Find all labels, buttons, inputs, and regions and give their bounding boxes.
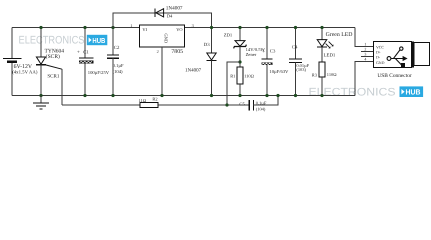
svg-text:R1: R1 (230, 74, 235, 79)
svg-text:C3: C3 (270, 49, 276, 55)
capacitor C2 0.1uF (107, 55, 119, 58)
wire C1 bottom to ground bus (84, 64, 86, 96)
svg-text:SCR1: SCR1 (47, 74, 59, 80)
wire USB pin 3 stub (361, 56, 374, 58)
junction gate line / node A branch (225, 103, 228, 106)
junction top bus / SCR (39, 26, 42, 29)
wire SCR anode drop (40, 28, 42, 58)
svg-text:GND: GND (163, 33, 168, 43)
svg-text:6V-12V: 6V-12V (14, 64, 33, 70)
capacitor C5 0.1uF (249, 100, 253, 110)
capacitor C3 10uF/63V electrolytic (261, 59, 272, 65)
svg-text:+: + (262, 50, 265, 55)
svg-text:110Ω: 110Ω (244, 74, 254, 79)
wire gate line with R2 (62, 104, 249, 106)
svg-text:HUB: HUB (92, 36, 105, 45)
junction ground bus / R1 (238, 94, 241, 97)
svg-text:0.1µF: 0.1µF (113, 63, 124, 68)
junction ground bus / 7805 GND (160, 94, 163, 97)
wire C3 top drop (266, 28, 268, 59)
wire C3 bottom to ground bus (266, 65, 268, 95)
svg-text:11Ω: 11Ω (139, 98, 147, 103)
svg-text:ZD1: ZD1 (224, 32, 233, 37)
svg-text:1N4007: 1N4007 (185, 67, 202, 73)
junction top bus / C1 (83, 26, 86, 29)
svg-text:1: 1 (130, 23, 132, 28)
wire R3 bottom to ground bus (321, 77, 323, 96)
resistor R1 110ohm (237, 67, 243, 84)
battery BT1 6V-12V (3, 58, 22, 61)
junction ground bus / C3 (265, 94, 268, 97)
node A junction zener/R1/gate branch (238, 60, 241, 63)
capacitor C4 0.01uF (289, 59, 302, 63)
svg-text:GND: GND (376, 61, 385, 65)
svg-text:Green LED: Green LED (326, 32, 353, 38)
wire R1 bottom to ground bus (239, 84, 241, 96)
svg-text:110Ω: 110Ω (327, 72, 337, 77)
junction top bus / LED1 (320, 26, 323, 29)
wire battery to ground bus (11, 62, 13, 96)
wire SCR gate riser to gate line (61, 69, 63, 105)
svg-text:Zener: Zener (246, 52, 257, 57)
svg-text:(SCR): (SCR) (46, 54, 60, 60)
svg-text:VO: VO (176, 27, 182, 32)
svg-text:LED1: LED1 (324, 53, 336, 59)
diode D3 1N4007 (207, 53, 217, 60)
wire 7805 GND pin to ground bus (161, 47, 163, 96)
regulator U1 7805 (140, 25, 185, 47)
wire C2 top drop (112, 28, 114, 55)
wire USB GND pin to ground bus (355, 62, 374, 96)
junction ground bus / C2 (111, 94, 114, 97)
junction ground bus / C5 branch (276, 94, 279, 97)
svg-text:HUB: HUB (406, 88, 421, 97)
resistor R3 110ohm (319, 62, 325, 77)
wire C4 top drop (295, 28, 297, 59)
wire USB pin 2 stub (361, 51, 374, 53)
diode D4 1N4007 (155, 9, 164, 17)
junction top bus / ZD1 (238, 26, 241, 29)
wire D3 top drop (211, 28, 213, 54)
svg-text:7805: 7805 (171, 49, 183, 55)
svg-text:C1: C1 (83, 50, 89, 56)
wire ZD1 to node A (239, 47, 241, 68)
junction top bus / C4 (294, 26, 297, 29)
svg-text:VCC: VCC (376, 45, 384, 49)
wire LED cathode to R3 (321, 47, 323, 62)
svg-text:C5: C5 (239, 102, 245, 107)
wire top bus to USB VCC pin (355, 28, 374, 47)
junction ground bus / D3 (210, 94, 213, 97)
svg-text:ELECTRONICS: ELECTRONICS (19, 35, 85, 47)
svg-text:(103): (103) (296, 67, 306, 72)
svg-text:1N4007: 1N4007 (166, 5, 183, 11)
resistor R2 11ohm (140, 102, 158, 107)
wire C4 bottom to ground bus (295, 62, 297, 95)
LED LED1 green (317, 40, 333, 49)
svg-text:D3: D3 (204, 42, 210, 48)
svg-text:R3: R3 (312, 73, 318, 78)
wire C2 bottom to ground bus (112, 58, 114, 95)
svg-text:C4: C4 (292, 45, 298, 51)
ground symbol (33, 96, 49, 110)
svg-text:D-: D- (376, 56, 381, 60)
svg-text:D4: D4 (167, 13, 173, 18)
svg-text:3: 3 (192, 23, 194, 28)
connector J1 USB (374, 42, 430, 68)
svg-text:4: 4 (364, 57, 366, 62)
thyristor SCR1 TYN604 (36, 57, 62, 69)
junction ground bus / C4 (294, 94, 297, 97)
wire D3 bottom to ground bus (211, 60, 213, 95)
zener diode ZD1 14V/0.5W (234, 41, 247, 49)
svg-text:(4x1.5V AA): (4x1.5V AA) (12, 69, 38, 75)
svg-text:VI: VI (142, 27, 147, 32)
junction top bus / C3 (265, 26, 268, 29)
capacitor C1 100uF/25V electrolytic (79, 58, 93, 64)
junction top bus / D3 / D4 loop (210, 26, 213, 29)
svg-text:10µF/63V: 10µF/63V (269, 69, 289, 74)
junction top bus / C2 / D4 loop (111, 26, 114, 29)
svg-text:100µF/25V: 100µF/25V (88, 70, 110, 75)
wire node A to gate column (227, 62, 240, 105)
junction ground bus / C1 (83, 94, 86, 97)
svg-text:D+: D+ (376, 51, 381, 55)
svg-text:USB Connector: USB Connector (377, 73, 411, 79)
wire D4 bypass loop (113, 13, 212, 28)
junction ground bus / R3 (320, 94, 323, 97)
wire C5 right to ground bus (253, 96, 278, 106)
wire ZD1 top drop (239, 28, 241, 41)
svg-text:+: + (77, 51, 80, 56)
svg-text:(104): (104) (256, 106, 266, 111)
svg-text:C2: C2 (114, 45, 120, 51)
wire ground bus (12, 95, 355, 97)
wire LED top drop (321, 28, 323, 40)
junction ground bus / SCR cathode (39, 94, 42, 97)
wire battery left riser (11, 28, 13, 59)
svg-text:2: 2 (157, 49, 159, 54)
svg-text:(104): (104) (113, 69, 123, 74)
wire top positive bus (12, 27, 355, 29)
wire SCR cathode to ground bus (40, 65, 42, 96)
wire C1 top drop (84, 28, 86, 58)
svg-text:R2: R2 (152, 97, 157, 102)
